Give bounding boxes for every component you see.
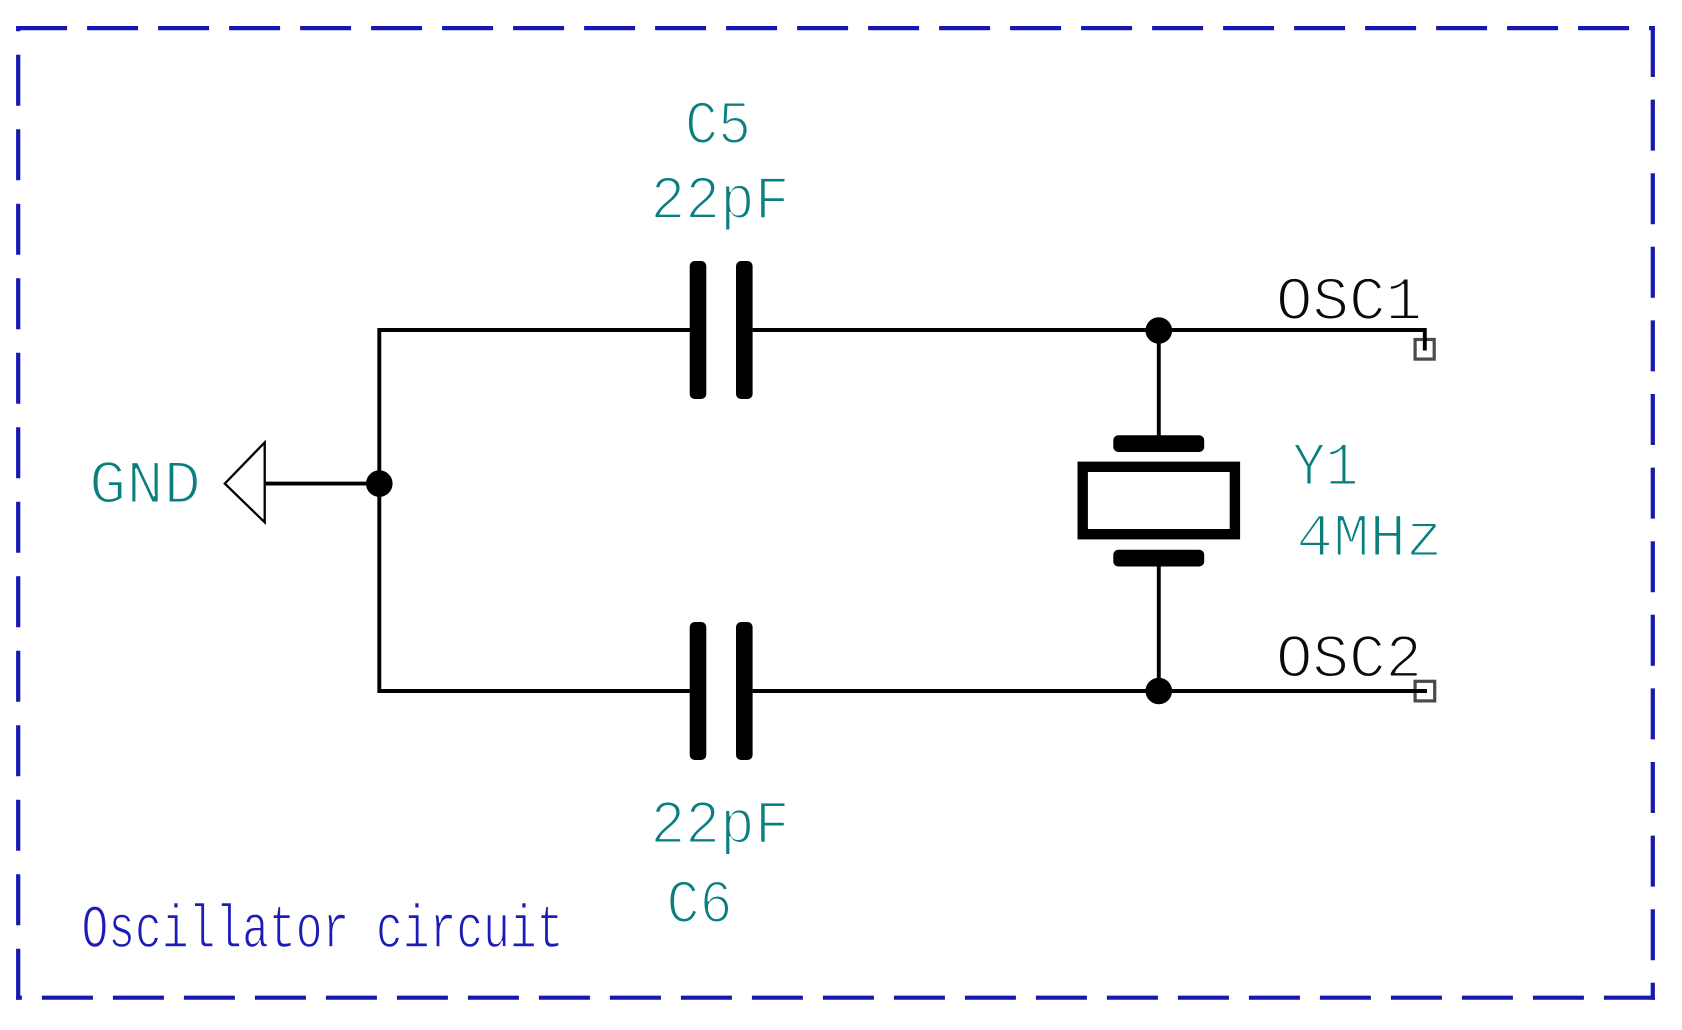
pin OSC1 [1415, 340, 1434, 360]
wire left vertical [377, 328, 381, 693]
wire top-left horizontal (GND bus to C5 left plate) [379, 328, 690, 332]
C5 reference label [685, 93, 751, 162]
wire bottom-left horizontal (to C6 left plate) [379, 689, 690, 693]
svg-text:Y1: Y1 [1293, 434, 1359, 503]
pin OSC2 [1415, 681, 1435, 701]
svg-text:Oscillator circuit: Oscillator circuit [82, 897, 564, 966]
capacitor C6 [690, 622, 753, 760]
node OSC1 junction [1146, 317, 1173, 344]
svg-text:OSC1: OSC1 [1276, 269, 1422, 338]
svg-text:C6: C6 [667, 872, 733, 941]
svg-text:22pF: 22pF [651, 168, 790, 237]
node OSC2 junction [1146, 678, 1173, 705]
C5 value label 22pF [651, 168, 790, 237]
svg-text:OSC2: OSC2 [1276, 627, 1422, 696]
svg-text:GND: GND [89, 453, 201, 522]
C6 reference label [667, 872, 733, 941]
GND net label [89, 453, 201, 522]
crystal Y1 [1083, 435, 1235, 566]
wire GND stub [265, 482, 379, 486]
text "Oscillator circuit" [82, 897, 564, 966]
net label OSC1 [1276, 269, 1422, 338]
capacitor C5 [690, 261, 753, 399]
svg-text:C5: C5 [685, 93, 751, 162]
Y1 reference label [1293, 434, 1359, 503]
wire crystal top [1157, 330, 1161, 437]
wire crystal bottom [1157, 564, 1161, 691]
wire bottom-right horizontal (C6 right plate to OSC2 pin) [753, 689, 1427, 693]
svg-text:4MHz: 4MHz [1297, 506, 1443, 575]
Y1 value label 4MHz [1297, 506, 1443, 575]
net label OSC2 [1276, 627, 1422, 696]
node GND junction [366, 470, 393, 497]
ground [225, 442, 265, 522]
C6 value label 22pF [651, 793, 790, 862]
svg-text:22pF: 22pF [651, 793, 790, 862]
wire top-right horizontal (C5 right plate to OSC1 pin) [753, 330, 1425, 351]
